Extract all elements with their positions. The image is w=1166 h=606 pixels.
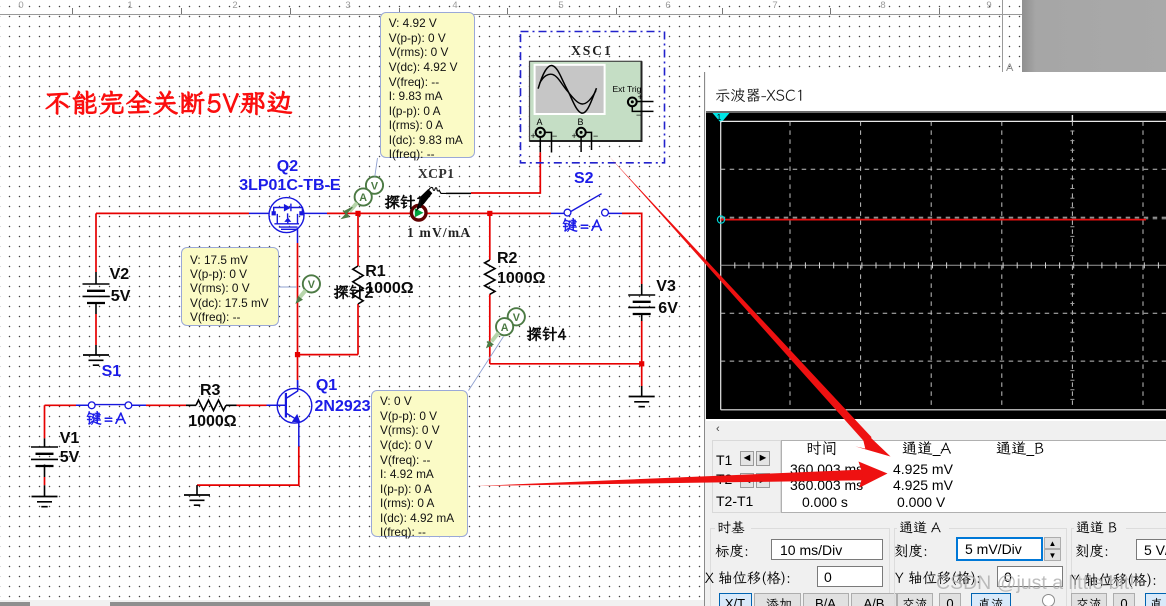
label R3: [200, 382, 220, 400]
channel A group: [894, 528, 1067, 606]
channel A coupling buttons: [897, 593, 933, 606]
channel A trace: [721, 218, 1166, 220]
wire node to R1 bottom: [298, 354, 359, 356]
timebase group: [710, 528, 890, 606]
label probe 1: [384, 194, 428, 214]
wire top rail Q2 to S2: [327, 212, 551, 214]
group channel B: [1076, 520, 1120, 538]
battery V2 5V: [83, 284, 110, 296]
gray application background: [1022, 0, 1166, 74]
label R3 value: [188, 413, 236, 431]
resistor R3 1000ohm: [196, 400, 226, 410]
label probe 2: [333, 284, 377, 304]
label Q2: [277, 158, 298, 176]
ground below V2: [83, 355, 109, 365]
label S1: [102, 363, 122, 381]
scope display: [706, 111, 1166, 419]
battery V1 5V: [31, 447, 58, 459]
scope cursor readout panel: [712, 440, 781, 513]
wire V2 top rail to Q2: [96, 213, 249, 272]
red annotation headline: [43, 89, 298, 123]
probe data box 3 (V: 0 V): [371, 390, 468, 537]
transistor Q2 3LP01C-TB-E (P-MOSFET): [269, 198, 304, 233]
button add: [766, 597, 795, 606]
channel B coupling buttons: [1071, 593, 1107, 606]
label XCP1: [418, 166, 455, 182]
column header channel A: [902, 440, 954, 460]
svg-text:A: A: [501, 322, 509, 334]
resistor R1 1000ohm: [353, 266, 363, 304]
group timebase: [717, 520, 748, 538]
label S2: [574, 170, 594, 188]
T1 cursor buttons: [740, 451, 754, 466]
svg-text:V: V: [371, 180, 379, 192]
label V1 value: [60, 449, 80, 467]
label S1 key: [86, 410, 128, 430]
junction node R1-top: [355, 211, 360, 216]
label S2 key: [562, 217, 604, 237]
label Q1 value: [315, 398, 371, 416]
switch S1 (closed, key=A): [95, 404, 125, 406]
group channel A: [899, 520, 944, 538]
label Y offset A: [895, 570, 984, 589]
label scale A: [894, 543, 931, 562]
ground below Q1 emitter: [184, 495, 210, 505]
label V2 value: [111, 288, 131, 306]
probe leader lines: [279, 158, 504, 391]
CSDN watermark: [936, 572, 1135, 595]
wire node to Q1 collector: [297, 355, 299, 380]
resistor R2 1000ohm: [485, 260, 495, 294]
switch S2 (open, key=A): [571, 194, 602, 212]
wire V3 bottom: [641, 321, 643, 386]
wire V1 stem: [44, 405, 46, 485]
sweep mode buttons: [719, 593, 752, 606]
label V1: [60, 430, 80, 448]
wire S2 to V3: [622, 213, 642, 284]
button AC B: [1076, 597, 1105, 606]
svg-text:1: 1: [717, 113, 722, 122]
wire V1 S1 R3 Q1 row: [45, 404, 267, 406]
label scale: [715, 543, 752, 562]
top ruler: [0, 0, 1022, 15]
wire bottom rail R2 to V3: [490, 363, 642, 365]
probe 1 symbol (A/V): [366, 177, 383, 194]
label V2: [110, 266, 130, 284]
label R1: [365, 263, 385, 281]
channel B group: [1071, 528, 1166, 606]
scope window title: [715, 87, 808, 107]
label V3: [656, 278, 676, 296]
label Q2 value: [239, 177, 340, 195]
probe 2 symbol (V): [303, 275, 320, 292]
current probe XCP1: [411, 187, 471, 220]
ground below V1: [32, 497, 58, 507]
junction node V3-bottom: [639, 361, 644, 366]
label R2 value: [497, 270, 545, 288]
probe 4 symbol (A/V): [508, 308, 525, 325]
label 1 mV/mA: [407, 225, 471, 241]
label scale B: [1075, 543, 1112, 562]
wire Q2 drain down: [297, 243, 299, 355]
T2 cursor buttons: [740, 473, 754, 488]
button AC: [902, 597, 931, 606]
label probe 4: [526, 326, 570, 346]
junction node Q2drain-Q1: [295, 352, 300, 357]
label XSC1: [571, 43, 613, 59]
probe data box 1 (V: 4.92 V): [380, 12, 475, 158]
label R2: [497, 250, 517, 268]
wire R2 branch: [489, 213, 491, 363]
wire Q1 emitter to ground: [197, 447, 299, 486]
sheet zone border line and A label: [1002, 0, 1003, 73]
transistor Q1 2N2923 (NPN): [277, 381, 312, 424]
blue component pins: [76, 213, 622, 446]
wire V2 to ground segment: [95, 314, 97, 345]
label V3 value: [658, 300, 678, 318]
oscilloscope icon XSC1: [521, 32, 665, 163]
oscilloscope window: [704, 72, 1166, 606]
column header time: [806, 440, 840, 460]
junction node R2-top: [487, 211, 492, 216]
label R1 value: [365, 280, 413, 298]
svg-text:V: V: [308, 279, 316, 291]
wire R1 branch: [357, 213, 359, 354]
schematic horizontal scrollbar: [0, 600, 704, 606]
scope icon Ext Trig / A / B / plus minus: [613, 84, 642, 94]
label X offset: [705, 570, 794, 589]
wire scope A to probe output: [471, 152, 540, 193]
battery V3 6V: [628, 295, 655, 307]
black component leads: [45, 272, 642, 497]
button DC B: [1150, 597, 1166, 606]
button DC: [978, 597, 1007, 606]
svg-text:V: V: [513, 312, 521, 324]
probe data box 2 (V: 17.5 mV): [181, 247, 279, 326]
svg-text:A: A: [359, 192, 367, 204]
ground below V3: [629, 397, 655, 407]
label Q1: [316, 377, 337, 395]
label Y offset B: [1071, 572, 1160, 591]
column header channel B: [996, 440, 1047, 460]
